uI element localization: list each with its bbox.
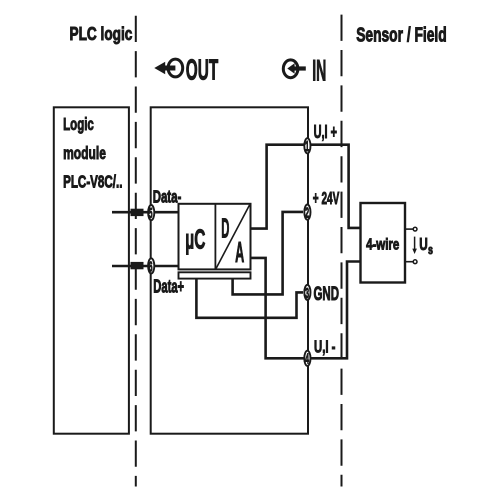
svg-text:5: 5: [149, 206, 153, 221]
connector plug pin 5 (black): [131, 209, 144, 216]
connector plug pin 6 (black): [131, 262, 144, 269]
D/A diagonal: [216, 205, 249, 268]
logic module box U1: [54, 107, 129, 433]
svg-text:PLC logic: PLC logic: [70, 24, 133, 44]
wire U,I+ : D/A output to terminal 1 to 4-wire input: [251, 145, 361, 229]
svg-text:IN: IN: [312, 54, 326, 87]
stub to Us terminal bottom: [405, 261, 413, 263]
microcontroller block uC with D/A converter: [179, 204, 251, 270]
terminal 4 circle: [304, 351, 310, 366]
svg-text:Sensor / Field: Sensor / Field: [356, 23, 446, 46]
svg-text:PLC-V8C/..: PLC-V8C/..: [63, 172, 122, 192]
Us terminal top (open circle): [413, 227, 417, 231]
svg-text:Data-: Data-: [153, 188, 182, 207]
terminal 1 circle: [304, 138, 310, 153]
wire Data- : logic module to pin 5 to uC: [112, 211, 179, 214]
IN symbol: arrow head (points left into circle): [287, 63, 294, 74]
stub to Us terminal top: [405, 228, 413, 230]
wire Data+ : logic module to pin 6 to uC: [112, 265, 179, 268]
MACX module outline box: [151, 107, 308, 433]
boundary dashed line: module | Sensor/Field: [341, 15, 343, 487]
terminal 5 circle: [148, 205, 154, 220]
OUT symbol: arrow shaft: [164, 66, 176, 71]
svg-text:A: A: [235, 236, 244, 268]
wire U,I- : D/A output to terminal 4 to 4-wire input: [251, 258, 361, 358]
wire GND : terminal 3 to uC supply bar: [196, 279, 303, 318]
wire +24V : terminal 2 to uC supply bar: [233, 212, 303, 295]
OUT symbol: circle: [168, 59, 183, 77]
svg-text:4-wire: 4-wire: [366, 234, 399, 252]
svg-text:+ 24V: + 24V: [313, 189, 340, 209]
svg-text:6: 6: [149, 260, 153, 275]
OUT symbol: arrow head (points left): [154, 62, 165, 75]
svg-text:2: 2: [305, 206, 309, 221]
svg-text:3: 3: [305, 286, 309, 301]
svg-text:U: U: [419, 235, 428, 255]
svg-text:U,I +: U,I +: [314, 122, 337, 143]
boundary dashed line: PLC logic | module: [135, 16, 137, 487]
svg-text:4: 4: [305, 352, 309, 367]
Us terminal bottom (open circle): [413, 260, 417, 264]
svg-text:1: 1: [305, 140, 309, 155]
Us arrow (down): [414, 237, 416, 250]
svg-text:Logic: Logic: [63, 115, 94, 135]
svg-text:D: D: [221, 214, 229, 244]
terminal 3 circle: [304, 285, 310, 300]
svg-text:module: module: [63, 144, 106, 164]
svg-text:GND: GND: [314, 284, 340, 305]
4-wire sensor box: [361, 203, 406, 283]
terminal 2 circle: [304, 205, 310, 220]
IN symbol: circle: [283, 60, 298, 78]
svg-text:s: s: [428, 243, 433, 257]
uC / D-A divider: [214, 204, 216, 270]
IN symbol: arrow shaft: [294, 66, 306, 70]
terminal 6 circle: [148, 258, 154, 273]
svg-text:Data+: Data+: [153, 277, 184, 298]
svg-text:U,I -: U,I -: [314, 338, 336, 357]
svg-text:OUT: OUT: [186, 53, 218, 86]
svg-text:µC: µC: [185, 224, 205, 255]
supply bus bar under uC: [179, 272, 251, 278]
